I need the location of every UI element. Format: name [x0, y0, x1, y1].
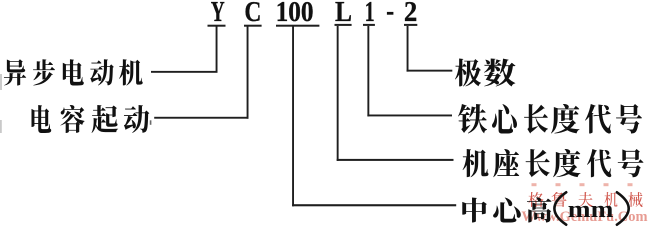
vertical leader line from L: [337, 26, 339, 161]
closing parenthesis: [617, 192, 629, 224]
horizontal leader line to label jishu (right row 1): [407, 70, 453, 72]
svg-text:mm: mm: [568, 197, 614, 223]
svg-text:2: 2: [404, 0, 417, 28]
label text: ji shu (number of poles): [455, 59, 516, 87]
underline under L: [335, 24, 352, 26]
horizontal leader line to label tiexin (right row 2): [367, 115, 452, 117]
scan speck near dianrong line: [150, 120, 152, 125]
vertical leader line from 1: [367, 26, 369, 116]
vertical leader line from 2: [407, 26, 409, 72]
label text: zhong xin gao (center height): [462, 197, 551, 222]
vertical leader line from Y: [216, 26, 218, 72]
underline under C: [244, 25, 262, 27]
label text: ji zuo chang du dai hao (frame length code): [463, 149, 644, 177]
label text: yi bu dian dong ji (asynchronous motor): [4, 59, 143, 85]
underline under 2: [404, 24, 417, 26]
horizontal leader line to label jizuo (right row 3): [337, 159, 454, 161]
label text: dian rong qi dong (capacitor start): [31, 105, 149, 133]
hyphen between 1 and 2: [387, 12, 394, 15]
svg-text:L: L: [335, 0, 352, 28]
vertical leader line from C: [247, 26, 249, 118]
underline under 1: [363, 24, 375, 26]
svg-text:C: C: [244, 0, 261, 28]
scan smudge left edge upper: [0, 74, 2, 90]
underline under 100: [276, 25, 319, 27]
red watermark characters ge lu fu ji xie: [529, 192, 643, 207]
scan smudge left edge lower: [0, 120, 2, 133]
underline under Y: [208, 25, 226, 27]
horizontal leader line to label zhongxingao (right row 4): [292, 204, 456, 206]
horizontal leader line to label yibu-diandongji (left row 1): [151, 71, 218, 73]
vertical leader line from 100: [292, 26, 294, 206]
label text: tie xin chang du dai hao (core length code): [458, 104, 642, 134]
faint watermark fragments above: [532, 183, 633, 186]
opening parenthesis: [554, 192, 566, 224]
svg-text:100: 100: [276, 0, 314, 28]
horizontal leader line to label dianrong-qidong (left row 2): [154, 117, 248, 119]
svg-text:Y: Y: [211, 0, 225, 28]
svg-text:1: 1: [365, 0, 375, 28]
